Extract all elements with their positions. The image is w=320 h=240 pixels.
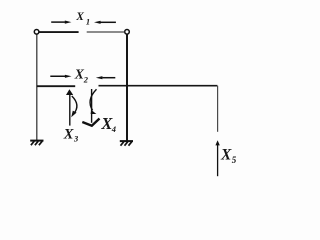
force X1 left arrow (94, 21, 116, 24)
svg-text:X: X (63, 127, 74, 143)
top beam left segment (39, 31, 78, 33)
svg-text:4: 4 (111, 124, 116, 134)
top beam right segment (87, 31, 125, 33)
svg-text:5: 5 (232, 155, 237, 165)
ground support left (30, 141, 43, 146)
svg-text:1: 1 (86, 17, 90, 27)
force X4 down arrow (82, 89, 99, 126)
hanger line from beam end (217, 86, 219, 132)
svg-text:X: X (75, 11, 84, 23)
force X5 up arrow (215, 140, 219, 176)
moment arc X3 (71, 96, 77, 117)
hinge circle left (34, 30, 39, 35)
ground support right (120, 141, 133, 146)
force X1 right arrow (51, 21, 71, 24)
hinge circle right (125, 30, 130, 35)
force X2 left arrow (96, 76, 116, 79)
force X3 up arrow (66, 89, 73, 125)
svg-text:X: X (220, 147, 232, 164)
moment arc X4 (90, 89, 96, 114)
svg-text:2: 2 (83, 75, 89, 85)
svg-text:3: 3 (73, 134, 79, 144)
left column (36, 34, 38, 140)
right column (126, 34, 128, 141)
force X2 right arrow (50, 75, 71, 78)
beam 2 right segment (99, 85, 218, 87)
beam 2 left segment (37, 85, 75, 87)
